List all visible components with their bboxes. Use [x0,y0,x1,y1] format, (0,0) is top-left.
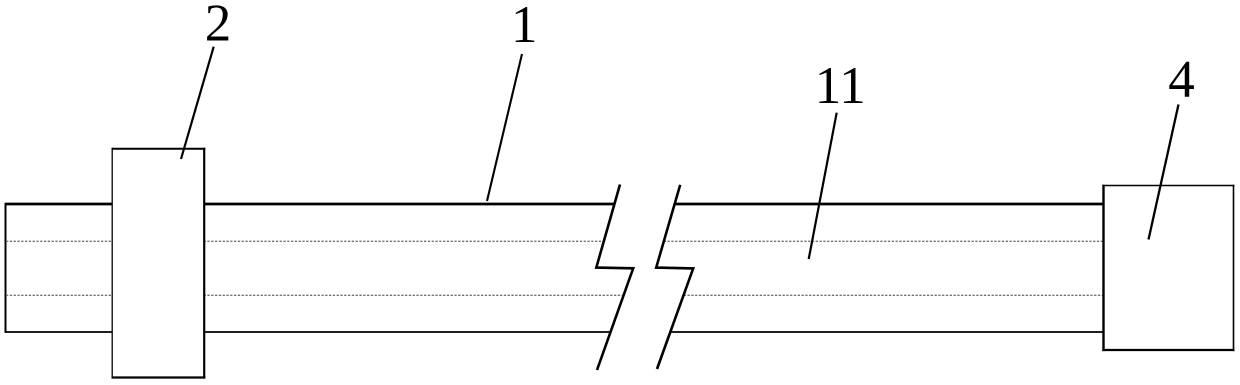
svg-text:1: 1 [511,0,538,54]
lower dashed centerline (left of break) [6,294,623,296]
flange block 2 left edge [111,148,113,379]
end block 4 top edge [1102,185,1234,187]
shaft 1 bottom edge (left of break) [5,331,610,333]
leader line for label 1 [487,54,522,201]
shaft 1 top edge (left of break) [5,203,615,206]
shaft 1 bottom edge (right of break) [670,331,1110,333]
end block 4 left edge [1102,185,1104,351]
flange block 2 top edge [112,148,206,150]
flange block 2 bottom edge [112,376,206,378]
end block 4 body [1104,186,1234,351]
upper dashed centerline (right of break) [664,240,1110,242]
break line (right zigzag) [656,185,693,369]
svg-text:4: 4 [1168,51,1195,109]
flange block 2 right edge [203,148,205,379]
end block 4 right edge [1233,185,1235,351]
upper dashed centerline (left of break) [6,240,604,242]
end block 4 bottom edge [1102,349,1234,351]
flange block 2 body [112,149,204,378]
leader line for label 2 [181,47,214,159]
break line (left zigzag) [596,185,633,371]
svg-text:11: 11 [815,57,866,115]
shaft 1 top edge (right of break) [675,203,1111,206]
lower dashed centerline (right of break) [684,294,1110,296]
svg-text:2: 2 [205,0,232,52]
leader line for label 4 [1149,105,1179,240]
leader line for label 11 [809,113,837,259]
shaft 1 left end vertical edge [5,203,7,333]
